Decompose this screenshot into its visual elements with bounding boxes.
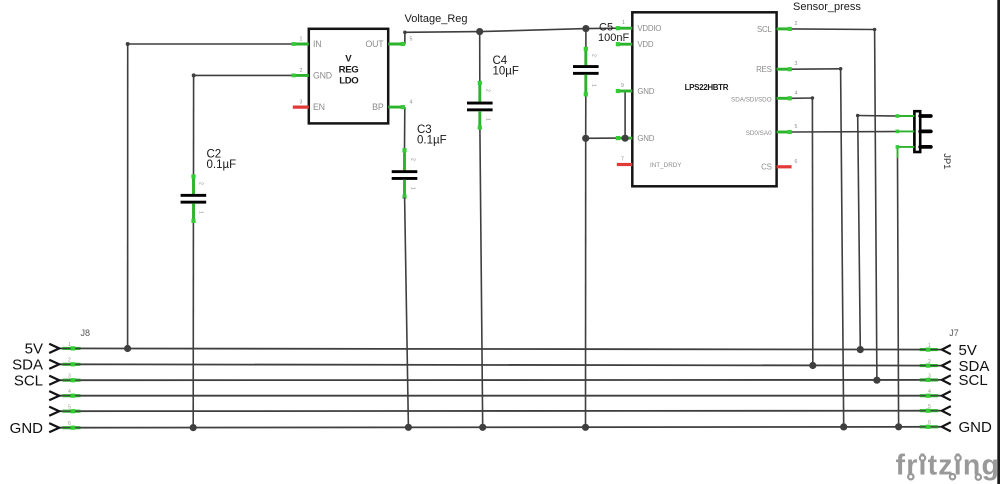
svg-text:RES: RES (756, 65, 771, 74)
wire node C5 to U1 VDDIO pin (586, 27, 620, 29)
wire U2 IN pin to 5V riser (horizontal) (128, 43, 293, 45)
wire SCL riser down to SCL bus (875, 30, 877, 381)
svg-text:VDD: VDD (637, 40, 653, 49)
JP1 pin 2 leg (green) (896, 130, 915, 134)
connector J7 pin 4 arrow (942, 391, 951, 400)
svg-text:Voltage_Reg: Voltage_Reg (405, 13, 468, 25)
connector J8 pin 6 leg (green) (62, 426, 80, 430)
connector J7 pin 3 leg (green) (920, 378, 938, 382)
wire bus row 4 (NC) J8.4 to J7.4 (60, 395, 941, 397)
svg-text:IN: IN (313, 39, 321, 49)
connector J7 pin 1 arrow (942, 345, 951, 354)
svg-text:5: 5 (410, 37, 413, 43)
JP1 pin 3 post (920, 145, 931, 149)
junction SDA bus / SDA riser (809, 362, 816, 369)
wire U1 SD0/SA0 pin to JP1 pin 2 (791, 131, 897, 134)
svg-text:2: 2 (198, 182, 204, 185)
svg-text:5V: 5V (25, 341, 43, 358)
label C4 value (493, 55, 519, 78)
wire C5 pin 1 down to GND node (585, 96, 587, 139)
junction C5 / GND wire (582, 135, 589, 142)
svg-text:GND: GND (959, 419, 993, 436)
wire C4 pin 1 down to GND bus (480, 128, 483, 427)
JP1 pin 1 post (920, 114, 931, 118)
svg-text:100nF: 100nF (598, 32, 629, 44)
junction GND bus / C4 (479, 424, 486, 431)
capacitor C2 plates (181, 194, 207, 204)
svg-text:BP: BP (372, 102, 384, 112)
label C2 value (207, 149, 237, 172)
wire bus row 2 (SDA) J8.2 to J7.2 (60, 364, 941, 365)
svg-text:5: 5 (928, 404, 931, 410)
wire C3 pin 1 down to GND bus (405, 198, 409, 428)
junction GND bus / C5 (582, 424, 589, 431)
wire 5V riser down to 5V bus (127, 44, 129, 349)
bendpoint at IN wire corner (126, 42, 130, 46)
U1 VDD leg (green) (616, 42, 633, 46)
svg-text:V: V (345, 53, 352, 64)
U1 pin 1 VDDIO leg (green) (616, 26, 633, 30)
pin header JP1 body (914, 111, 920, 152)
svg-text:4: 4 (68, 389, 71, 395)
svg-text:SDA: SDA (12, 357, 43, 374)
svg-text:1: 1 (68, 342, 71, 348)
capacitor C5 pin 1 leg (green) (584, 75, 588, 97)
junction GND bus / RES riser (840, 423, 847, 430)
wire RES riser down to GND bus (841, 69, 844, 427)
svg-text:LDO: LDO (339, 76, 359, 87)
svg-text:3: 3 (300, 100, 303, 106)
wire U1 GND pin 9 riser down to GND node (624, 91, 626, 138)
svg-text:1: 1 (198, 211, 204, 214)
wire GND node down to GND bus (585, 138, 587, 427)
U1 pin 7 INT_DRDY leg (red, unconnected) (617, 163, 633, 166)
svg-text:2: 2 (591, 54, 597, 57)
junction VREG_OUT / C4 (476, 28, 483, 35)
svg-text:EN: EN (313, 102, 325, 112)
connector J8 pin 4 arrow (49, 391, 59, 400)
wire JP1 pin1 riser down to 5V bus (858, 116, 861, 350)
wire JP1 pin 3 green elbow down (897, 147, 899, 159)
capacitor C3 pin 1 leg (green) (402, 180, 406, 199)
capacitor C4 pin 1 leg (green) (478, 111, 482, 130)
svg-text:VDDIO: VDDIO (637, 24, 661, 33)
svg-text:2: 2 (928, 359, 931, 365)
svg-text:J7: J7 (949, 328, 959, 338)
svg-text:REG: REG (339, 65, 359, 76)
U2 part name V REG LDO (339, 53, 360, 86)
JP1 pin 1 leg (green) (896, 114, 915, 118)
U1 pin 5 SD0/SA0 leg (green) (777, 130, 792, 134)
IC U1 LPS22HBTR body (632, 12, 776, 186)
U2 pin 2 GND leg (green) (292, 74, 309, 78)
U1 pin 4 SDA/SDI/SDO leg (green) (777, 96, 792, 100)
bendpoint at JP1 pin1 corner (856, 114, 860, 118)
svg-text:4: 4 (410, 100, 413, 106)
svg-text:2: 2 (300, 68, 303, 74)
svg-text:JP1: JP1 (942, 153, 952, 169)
wire JP1 pin 1 to 5V riser corner (858, 115, 898, 118)
svg-text:2: 2 (68, 358, 71, 364)
wire OUT to node VREG_OUT (C4 junction) (405, 31, 480, 34)
connector J7 pin 1 leg (green) (920, 348, 938, 352)
connector J7 pin 6 arrow (942, 422, 951, 431)
svg-text:6: 6 (795, 159, 798, 165)
wire riser U2 GND down to C2 pin 2 (193, 75, 195, 175)
svg-text:OUT: OUT (366, 39, 385, 49)
U1 GND leg lower (green) (616, 136, 633, 140)
svg-text:1: 1 (485, 118, 491, 121)
connector J8 pin 3 leg (green) (62, 378, 80, 382)
svg-text:5: 5 (68, 405, 71, 411)
connector J8 pin 3 arrow (49, 376, 59, 385)
svg-text:2: 2 (485, 89, 491, 92)
U2 pin 1 IN leg (green) (292, 42, 309, 46)
svg-text:0.1µF: 0.1µF (207, 159, 237, 171)
svg-text:5: 5 (795, 124, 798, 130)
svg-text:J8: J8 (81, 328, 91, 338)
connector J7 pin 6 leg (green) (920, 425, 938, 429)
connector J7 pin 5 leg (green) (920, 409, 938, 413)
svg-text:GND: GND (637, 87, 654, 96)
label C5 value (598, 22, 629, 45)
wire GND node to U1 GND pin (horizontal) (586, 137, 620, 139)
wire bus row 1 (5V) J8.1 to J7.1 (60, 348, 941, 349)
svg-text:3: 3 (928, 373, 931, 379)
capacitor C4 plates (467, 102, 493, 112)
svg-text:0.1µF: 0.1µF (417, 135, 447, 147)
connector J8 pin 5 arrow (49, 407, 59, 416)
U2 pin 5 OUT leg (green) (388, 42, 405, 46)
svg-text:6: 6 (928, 420, 931, 426)
JP1 pin 3 leg (green) (896, 145, 915, 149)
connector J7 pin 2 leg (green) (920, 364, 938, 368)
svg-text:1: 1 (622, 20, 625, 26)
connector J8 pin 1 arrow (49, 344, 59, 353)
U2 pin 3 EN leg (red, unconnected) (293, 105, 309, 108)
label C3 value (417, 124, 447, 147)
connector J7 pin 5 arrow (942, 406, 951, 415)
connector J8 pin 2 arrow (49, 360, 59, 369)
connector J8 pin 6 arrow (49, 423, 59, 432)
capacitor C3 plates (392, 170, 418, 180)
wire U2 BP pin down to C3 pin 2 (404, 107, 406, 149)
U1 pin 9 GND leg (green) (616, 89, 633, 93)
wire node C4 to node C5/VDDIO (480, 29, 586, 32)
capacitor C5 plates (573, 65, 599, 75)
svg-text:4: 4 (928, 389, 931, 395)
wire C4 junction down to C4 pin 2 (479, 32, 481, 82)
wire C2 pin 1 down to GND bus (192, 222, 194, 428)
wire bus row 3 (SCL) J8.3 to J7.3 (60, 379, 941, 381)
svg-text:1: 1 (409, 187, 415, 190)
bendpoint at RES corner (839, 67, 843, 71)
U1 pin 3 RES leg (green) (777, 67, 792, 71)
wire U2 OUT pin jog up (404, 32, 406, 44)
svg-text:5V: 5V (959, 342, 977, 359)
svg-text:SD0/SA0: SD0/SA0 (746, 130, 772, 137)
svg-text:SCL: SCL (757, 25, 772, 34)
svg-text:2: 2 (409, 158, 415, 161)
connector J8 pin 5 leg (green) (62, 409, 80, 413)
svg-text:SCL: SCL (959, 372, 988, 389)
fritzing watermark ring accents (908, 455, 981, 480)
junction 5V bus / IN riser (124, 345, 131, 352)
bendpoint at SCL corner (873, 28, 877, 32)
svg-text:2: 2 (795, 21, 798, 27)
capacitor C4 pin 2 leg (green) (478, 81, 482, 102)
svg-text:1: 1 (300, 37, 303, 43)
wire JP1 pin3 riser down to GND bus (898, 158, 899, 427)
wire U1 RES pin to riser (791, 68, 840, 70)
svg-text:INT_DRDY: INT_DRDY (650, 162, 682, 169)
svg-text:1: 1 (591, 84, 597, 87)
U1 pin 2 SCL leg (green) (777, 27, 792, 31)
wire U2 GND pin to C2 riser (horizontal) (194, 74, 293, 76)
wire U1 SDA/SDI/SDO pin to riser (791, 97, 812, 99)
junction VDDIO / C5 (582, 25, 589, 32)
connector J8 pin 1 leg (green) (62, 346, 80, 350)
junction SCL bus / SCL riser (873, 377, 880, 384)
svg-text:GND: GND (313, 70, 332, 80)
junction U1 GND pins (622, 135, 629, 142)
capacitor C3 pin 2 leg (green) (402, 148, 406, 170)
junction GND bus / JP1 pin3 riser (895, 423, 902, 430)
U2 pin 4 BP leg (green) (388, 105, 405, 109)
bendpoint at OUT jog corner (403, 31, 407, 35)
connector J8 pin 2 leg (green) (62, 362, 80, 366)
connector J7 pin 2 arrow (942, 361, 951, 370)
wire bus row 5 (NC) J8.5 to J7.5 (60, 410, 941, 413)
junction GND bus / C2 (190, 424, 197, 431)
svg-text:10µF: 10µF (493, 66, 519, 78)
svg-text:SDA/SDI/SDO: SDA/SDI/SDO (731, 97, 772, 104)
capacitor C2 pin 2 leg (green) (191, 174, 195, 194)
bendpoint at GND wire corner (192, 73, 196, 77)
svg-text:LPS22HBTR: LPS22HBTR (685, 83, 729, 92)
connector J8 pin 4 leg (green) (62, 394, 80, 398)
svg-text:5: 5 (622, 36, 625, 41)
voltage regulator U2 body (309, 29, 388, 124)
wire SDA riser down to SDA bus (811, 98, 813, 366)
svg-text:GND: GND (637, 134, 654, 143)
capacitor C5 pin 2 leg (green) (584, 47, 588, 66)
svg-text:9: 9 (621, 83, 624, 89)
svg-text:Sensor_press: Sensor_press (793, 1, 861, 13)
bendpoint at SDA corner (811, 96, 815, 100)
svg-text:1: 1 (928, 343, 931, 349)
connector J7 pin 4 leg (green) (920, 394, 938, 398)
svg-text:6: 6 (68, 421, 71, 427)
connector J7 pin 3 arrow (942, 375, 951, 384)
capacitor C2 pin 1 leg (green) (191, 203, 195, 223)
window edge bar (right) (997, 0, 1000, 484)
svg-text:7: 7 (621, 157, 624, 163)
svg-text:GND: GND (10, 420, 44, 437)
svg-text:CS: CS (761, 163, 771, 172)
svg-text:3: 3 (795, 61, 798, 67)
U1 pin 6 CS leg (red, unconnected) (777, 165, 792, 168)
wire U1 SCL pin to SCL riser (791, 28, 874, 31)
svg-text:3: 3 (68, 374, 71, 380)
svg-text:4: 4 (795, 90, 798, 96)
junction GND bus / C3 (405, 424, 412, 431)
JP1 pin 2 post (920, 129, 931, 133)
svg-text:SCL: SCL (14, 372, 43, 389)
wire bus row 6 (GND) J8.6 to J7.6 (60, 426, 941, 429)
wire C5 junction down to C5 pin 2 (585, 29, 587, 48)
junction 5V bus / JP1 pin1 riser (857, 346, 864, 353)
